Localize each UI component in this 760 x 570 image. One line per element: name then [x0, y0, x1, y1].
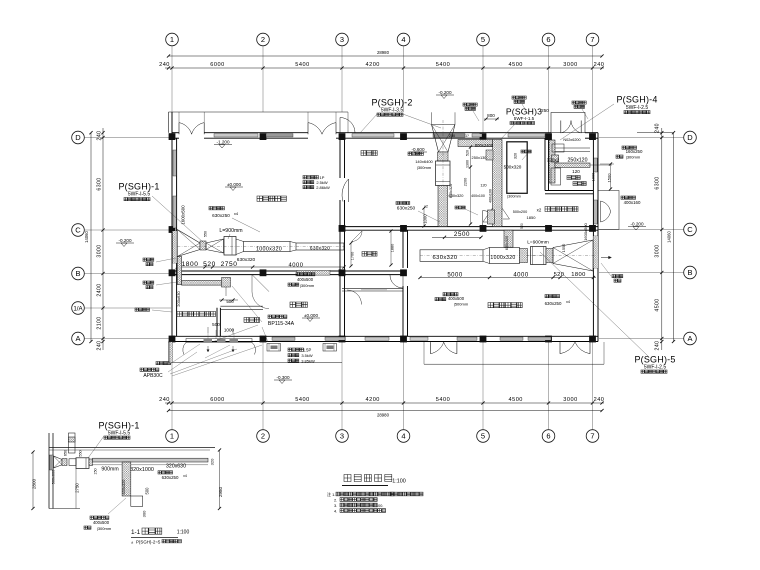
- svg-text:BP115-34A: BP115-34A: [268, 321, 295, 327]
- column left wall row C: [169, 226, 176, 233]
- svg-text:2750: 2750: [75, 483, 80, 493]
- svg-text:A: A: [687, 334, 692, 343]
- svg-text:200x630: 200x630: [176, 291, 181, 307]
- svg-text:400x500: 400x500: [448, 296, 465, 301]
- columns on top wall: [169, 133, 596, 140]
- svg-text:1:100: 1:100: [392, 479, 406, 485]
- svg-text:3.5kW: 3.5kW: [301, 353, 313, 358]
- windows left wall: [173, 150, 176, 228]
- windows bottom wall: [272, 337, 551, 340]
- svg-text:320x2: 320x2: [547, 158, 560, 163]
- svg-text:6: 6: [546, 35, 550, 44]
- svg-text:L=900mm: L=900mm: [527, 240, 548, 246]
- bottom exterior wall: [172, 336, 598, 341]
- svg-text:1: 1: [170, 35, 174, 44]
- level -0.200 top: [436, 90, 454, 99]
- room oil tank small: [573, 182, 586, 186]
- wall oil room left vertical: [545, 138, 549, 190]
- level -1.200: [214, 139, 232, 148]
- svg-text:500x320: 500x320: [504, 165, 522, 170]
- svg-text:630x320: 630x320: [310, 246, 330, 252]
- label AC rest room: [288, 273, 315, 289]
- svg-text:800: 800: [487, 113, 495, 118]
- svg-text:1850: 1850: [527, 215, 537, 220]
- wall row B horizontal: [172, 271, 406, 275]
- svg-text:550: 550: [204, 231, 208, 237]
- window bottom extra: [410, 337, 477, 340]
- center fan cone P(SGH)-2: [432, 112, 456, 226]
- wall duty room right vertical: [403, 230, 408, 336]
- door duty room: [390, 275, 403, 288]
- duct through row B wall: [297, 270, 330, 275]
- room storeroom: [177, 312, 216, 317]
- door duty room top: [352, 231, 363, 242]
- section walls and ceiling: [49, 433, 215, 509]
- duct drop P(SGH)-1 to storeroom: [177, 257, 238, 305]
- svg-text:630x320: 630x320: [121, 479, 126, 495]
- svg-text:520: 520: [203, 261, 216, 268]
- svg-text:-0.200: -0.200: [118, 238, 131, 243]
- svg-text:x2: x2: [537, 208, 542, 213]
- svg-text:320x1000: 320x1000: [130, 467, 154, 473]
- label 1600x500: [181, 205, 186, 225]
- side exit bump-out right: [598, 191, 619, 230]
- columns on row C wall: [339, 225, 596, 232]
- label louver right bottom: [601, 263, 623, 282]
- label P(SGH)-1: [118, 182, 159, 201]
- svg-text:1-1: 1-1: [131, 529, 141, 536]
- window duty bottom wall: [361, 289, 387, 291]
- svg-text:1/A: 1/A: [73, 305, 83, 312]
- svg-text:550: 550: [79, 450, 83, 456]
- label 1000 rotated: [422, 206, 427, 227]
- svg-text:|300mm: |300mm: [300, 283, 315, 288]
- dim 1500 right: [600, 162, 614, 190]
- label P(SGH)-2: [371, 98, 412, 117]
- label 630x250 x4 lv room: [545, 295, 570, 307]
- leader P5: [540, 252, 648, 356]
- section label P(SGH)-1: [88, 420, 140, 458]
- svg-text:6300: 6300: [97, 177, 103, 190]
- room lv distribution: [488, 303, 522, 308]
- svg-text:|300mm: |300mm: [417, 165, 432, 170]
- svg-text:500: 500: [145, 487, 150, 495]
- windows top wall left: [214, 134, 293, 137]
- svg-text:14060: 14060: [84, 231, 89, 243]
- top exterior wall: [172, 133, 598, 139]
- level +0.000 hv room: [225, 182, 243, 191]
- svg-text:±0.000: ±0.000: [227, 182, 241, 187]
- svg-text:2500: 2500: [454, 231, 470, 238]
- leader P4: [560, 104, 614, 140]
- label 630x250 x4 left: [209, 207, 260, 233]
- svg-text:120: 120: [572, 169, 580, 174]
- svg-text:320: 320: [210, 458, 215, 465]
- labels near P3 duct: [449, 113, 532, 226]
- section title 1-1: [131, 528, 189, 545]
- svg-text:4000: 4000: [289, 262, 304, 268]
- svg-text:120: 120: [480, 184, 486, 188]
- notes: [327, 491, 423, 514]
- svg-text:100.: 100.: [376, 504, 383, 508]
- louver left wall fan: [173, 231, 177, 263]
- svg-text:|300mm: |300mm: [626, 155, 641, 160]
- svg-text:|500mm: |500mm: [454, 302, 469, 307]
- louver label top: [449, 134, 469, 138]
- left exterior wall: [172, 112, 177, 342]
- svg-text:3000: 3000: [97, 244, 103, 257]
- svg-text:520: 520: [466, 150, 470, 156]
- svg-text:240: 240: [594, 397, 605, 403]
- svg-text:P(SGH)-1: P(SGH)-1: [98, 420, 139, 430]
- label duct leader storeroom: [143, 258, 176, 266]
- svg-text:3000: 3000: [655, 244, 661, 257]
- svg-text:650: 650: [64, 450, 68, 456]
- svg-text:1800: 1800: [571, 272, 586, 278]
- room light control: [361, 151, 377, 156]
- svg-text:P(SGH)-5: P(SGH)-5: [634, 355, 675, 365]
- svg-text:P(SGH)-1: P(SGH)-1: [118, 182, 159, 192]
- svg-text:3.: 3.: [334, 503, 337, 508]
- door bottom-right double: [560, 342, 590, 354]
- svg-text:2200: 2200: [464, 178, 468, 186]
- entrance stoop bottom-left: [183, 330, 256, 355]
- svg-text:630x320: 630x320: [237, 257, 256, 263]
- svg-text:5WF-I-2.5: 5WF-I-2.5: [626, 105, 648, 111]
- door in col3 wall: [342, 179, 348, 202]
- svg-text:A: A: [75, 334, 80, 343]
- svg-text:630x320: 630x320: [505, 236, 509, 251]
- svg-text:520: 520: [520, 223, 524, 229]
- svg-text:4000: 4000: [513, 272, 529, 278]
- svg-text:|300mm: |300mm: [97, 526, 112, 531]
- windows right wall: [594, 158, 597, 224]
- leader P2: [360, 113, 441, 133]
- svg-text:5: 5: [481, 35, 485, 44]
- label P(SGH)-4: [616, 95, 657, 114]
- svg-text:x4: x4: [566, 300, 570, 304]
- svg-text:4500: 4500: [655, 298, 661, 311]
- svg-text:400x500: 400x500: [297, 277, 314, 282]
- oil room ducts: [547, 138, 612, 185]
- svg-text:3000: 3000: [563, 397, 577, 403]
- svg-text:-0.200: -0.200: [630, 221, 643, 226]
- svg-text:5000: 5000: [447, 272, 463, 278]
- label 200x630 rotated: [176, 291, 181, 307]
- level +0.000 rest room: [302, 313, 320, 322]
- room generator: [537, 207, 578, 213]
- svg-text:250x120: 250x120: [568, 158, 588, 164]
- svg-text:2400: 2400: [97, 283, 103, 296]
- wall cylinder room top: [220, 306, 263, 309]
- svg-text:-0.600: -0.600: [411, 147, 424, 152]
- svg-text:C: C: [75, 225, 81, 234]
- room rest: [290, 302, 307, 307]
- svg-text:7: 7: [590, 432, 594, 441]
- label duct leader storeroom2: [143, 281, 177, 289]
- svg-text:28980: 28980: [377, 413, 390, 418]
- svg-text:1880: 1880: [391, 244, 395, 252]
- door top-left double: [179, 112, 204, 134]
- svg-text:1000: 1000: [423, 214, 428, 224]
- svg-text:630x250: 630x250: [162, 475, 179, 480]
- level -0.200 right: [628, 221, 646, 230]
- svg-text:1000x320: 1000x320: [490, 255, 515, 261]
- svg-text:240: 240: [159, 62, 170, 68]
- svg-text:4500: 4500: [508, 397, 522, 403]
- svg-text:500: 500: [212, 322, 220, 327]
- svg-text:2980: 2980: [218, 486, 223, 497]
- svg-text:P(SGH)-2~5: P(SGH)-2~5: [136, 540, 161, 545]
- svg-text:1600x500: 1600x500: [583, 222, 588, 240]
- svg-text:320x630: 320x630: [166, 463, 186, 469]
- label 400x160 right: [621, 196, 641, 205]
- label 630x250 x2 center: [396, 202, 440, 223]
- svg-text:240: 240: [159, 397, 170, 403]
- label roof drain: [156, 360, 176, 365]
- svg-text:5WF-I-1.5: 5WF-I-1.5: [514, 116, 535, 121]
- svg-text:250: 250: [449, 134, 455, 138]
- dim 1880 duty: [389, 229, 394, 266]
- svg-text:2: 2: [261, 432, 265, 441]
- svg-text:2.86kW: 2.86kW: [316, 185, 330, 190]
- door oil room top: [561, 121, 581, 134]
- svg-text:N02x6200: N02x6200: [563, 138, 580, 142]
- svg-text:630x250: 630x250: [397, 206, 416, 212]
- porch steps diagonals: [176, 344, 230, 360]
- svg-text:5WF-I-2.5: 5WF-I-2.5: [644, 365, 666, 371]
- fan assembly P(SGH)-1 left: [177, 230, 344, 257]
- label 500 1000 storeroom: [208, 322, 235, 334]
- svg-text:B: B: [75, 269, 80, 278]
- canopy outline top-left: [169, 112, 349, 133]
- svg-text:240: 240: [655, 123, 661, 133]
- svg-text:150: 150: [94, 468, 98, 474]
- svg-text:5: 5: [481, 432, 485, 441]
- svg-text:5WF-I-3.5: 5WF-I-3.5: [381, 108, 403, 114]
- door cylinder room: [252, 275, 269, 309]
- label 630x320 under fan2: [449, 184, 453, 199]
- svg-text:1:100: 1:100: [177, 530, 190, 536]
- grid column bubbles bottom 1-7: [166, 342, 599, 443]
- room duty: [362, 252, 377, 257]
- wall oil room bottom: [545, 191, 593, 194]
- svg-text:1500: 1500: [607, 173, 612, 183]
- svg-text:5400: 5400: [295, 397, 309, 403]
- svg-text:250: 250: [541, 108, 549, 113]
- svg-text:400x100: 400x100: [471, 194, 485, 198]
- svg-text:400x160: 400x160: [624, 200, 641, 205]
- columns on row B wall: [169, 269, 407, 276]
- svg-text:500x200: 500x200: [513, 210, 528, 214]
- section vertical duct elbow: [121, 462, 149, 517]
- door top wall light room: [340, 118, 355, 133]
- svg-text:2: 2: [261, 35, 265, 44]
- svg-text:-0.200: -0.200: [438, 90, 451, 95]
- svg-text:4200: 4200: [365, 62, 379, 68]
- label P(SGH)-3: [500, 106, 549, 140]
- section bottom label: [84, 498, 126, 531]
- svg-text:P(SGH)-2: P(SGH)-2: [371, 98, 412, 108]
- svg-text:400x100: 400x100: [489, 189, 493, 203]
- svg-text:5WF-I-5.5: 5WF-I-5.5: [128, 192, 150, 198]
- svg-text:注 1.: 注 1.: [327, 491, 335, 497]
- svg-text:2750: 2750: [221, 261, 238, 268]
- svg-text:6: 6: [546, 432, 550, 441]
- svg-text:5400: 5400: [436, 62, 450, 68]
- wall duty room bottom: [342, 289, 403, 291]
- level -0.600 light room: [409, 147, 427, 156]
- columns on bottom wall: [169, 336, 596, 343]
- label 160x250 right: [616, 146, 643, 160]
- dim lines right: [637, 123, 675, 350]
- duct column P(SGH)-3: [458, 140, 527, 227]
- right exterior wall: [593, 133, 598, 342]
- section roof stack: [69, 433, 76, 453]
- plan title: [342, 475, 406, 486]
- svg-text:4200: 4200: [365, 397, 379, 403]
- svg-text:1300: 1300: [466, 160, 470, 168]
- door bottom-mid double: [431, 342, 457, 354]
- svg-text:±0.000: ±0.000: [304, 313, 318, 318]
- svg-text:B: B: [687, 268, 692, 277]
- label bottom left small: [135, 308, 172, 312]
- svg-text:900mm: 900mm: [101, 467, 118, 473]
- svg-text:1.5P: 1.5P: [303, 348, 312, 353]
- svg-text:400x500: 400x500: [93, 520, 110, 525]
- svg-text:300: 300: [142, 510, 147, 517]
- exhaust arrow right: [601, 256, 612, 259]
- svg-text:320: 320: [514, 153, 518, 159]
- svg-text:630x320: 630x320: [449, 193, 465, 198]
- window top wall right: [508, 134, 545, 137]
- level -0.200 left: [116, 238, 134, 247]
- door row C wall: [483, 211, 499, 227]
- svg-text:3: 3: [340, 432, 344, 441]
- door duty interior: [347, 290, 362, 305]
- svg-text:C: C: [687, 225, 693, 234]
- svg-text:P(SGH)-4: P(SGH)-4: [616, 95, 657, 105]
- svg-text:14060: 14060: [667, 231, 672, 243]
- svg-text:520: 520: [554, 272, 565, 278]
- dim 1700 duty: [349, 241, 354, 267]
- leader BP115: [212, 286, 268, 342]
- windows top wall mid louver: [352, 134, 482, 138]
- room hv distribution: [257, 196, 286, 201]
- riser duct generator room: [504, 210, 536, 250]
- svg-text:2.: 2.: [334, 498, 337, 503]
- svg-text:630x250: 630x250: [212, 213, 230, 218]
- door top-mid double: [308, 112, 336, 134]
- grid row bubbles right: [599, 131, 696, 345]
- section duct labels: [94, 463, 187, 480]
- svg-text:800x2400: 800x2400: [475, 143, 494, 148]
- svg-text:6300: 6300: [655, 176, 661, 189]
- svg-text:APB30C: APB30C: [143, 373, 163, 379]
- svg-text:4.: 4.: [334, 509, 337, 514]
- svg-text:240: 240: [97, 341, 103, 351]
- svg-text:4500: 4500: [508, 62, 522, 68]
- leader APB30C: [168, 345, 262, 376]
- svg-text:x2: x2: [424, 205, 428, 209]
- svg-text:D: D: [687, 133, 693, 142]
- svg-text:630x250: 630x250: [545, 301, 562, 306]
- room cylinder: [244, 318, 260, 323]
- svg-text:160x250: 160x250: [626, 149, 643, 154]
- svg-text:1550: 1550: [561, 243, 566, 252]
- louver right wall fan: [593, 236, 598, 268]
- AC outdoor unit 1: [267, 344, 281, 352]
- svg-text:|300mm: |300mm: [507, 195, 521, 199]
- level -0.300 bottom: [274, 375, 292, 384]
- vent note 1: [463, 103, 479, 121]
- fan assembly P(SGH)-5 bottom-right: [420, 240, 596, 271]
- wall room divider col3 vertical: [340, 138, 345, 336]
- svg-text:240: 240: [594, 62, 605, 68]
- svg-text:P(SGH)3: P(SGH)3: [506, 106, 542, 116]
- svg-text:1600x500: 1600x500: [181, 205, 186, 225]
- wall cylinder room vertical: [217, 308, 220, 337]
- svg-text:1: 1: [170, 432, 174, 441]
- svg-text:6000: 6000: [210, 62, 224, 68]
- label AC split 1P: [303, 175, 330, 190]
- svg-text:2100: 2100: [97, 316, 103, 329]
- vent note 3: [572, 101, 588, 119]
- svg-text:240: 240: [97, 131, 103, 141]
- svg-text:L=900mm: L=900mm: [219, 228, 242, 234]
- svg-text:28980: 28980: [377, 50, 390, 55]
- wall row C horizontal: [342, 227, 598, 231]
- label P(SGH)-5: [634, 355, 675, 374]
- svg-text:500x600: 500x600: [52, 470, 56, 485]
- label 400x500 lv room: [435, 293, 469, 307]
- vestibule top-right: [551, 113, 585, 133]
- label APB30C: [140, 368, 163, 379]
- AC outdoor unit 2: [323, 344, 337, 352]
- svg-text:1000x320: 1000x320: [256, 246, 282, 252]
- svg-text:1800: 1800: [182, 261, 199, 268]
- svg-text:250x130: 250x130: [472, 155, 488, 160]
- svg-text:6000: 6000: [210, 397, 224, 403]
- dim line fan1: [176, 257, 346, 269]
- svg-text:2800: 2800: [32, 478, 37, 489]
- leader P1: [152, 196, 204, 243]
- svg-text:4: 4: [401, 35, 405, 44]
- svg-text:1000: 1000: [592, 173, 596, 181]
- dim line fan5: [418, 222, 596, 279]
- svg-text:3000: 3000: [563, 62, 577, 68]
- vent note 2: [512, 96, 528, 114]
- porch apron left: [169, 342, 343, 363]
- svg-text:5400: 5400: [436, 397, 450, 403]
- svg-text:1?: 1?: [465, 134, 469, 138]
- label duct center fan: [408, 152, 434, 170]
- dim lines left: [84, 128, 105, 350]
- svg-text:5400: 5400: [295, 62, 309, 68]
- svg-text:630x320: 630x320: [432, 255, 457, 261]
- section fan assembly: [50, 455, 209, 470]
- svg-text:4: 4: [401, 432, 405, 441]
- label AC split 1.5P: [288, 348, 315, 364]
- grid row bubbles left: [72, 131, 171, 345]
- svg-text:3: 3: [340, 35, 344, 44]
- svg-text:240: 240: [655, 341, 661, 351]
- svg-text:1700: 1700: [351, 252, 355, 260]
- svg-text:x4: x4: [183, 474, 187, 478]
- svg-text:-0.300: -0.300: [276, 375, 289, 380]
- dim line top segments: [159, 62, 604, 69]
- label BP115: [268, 315, 295, 327]
